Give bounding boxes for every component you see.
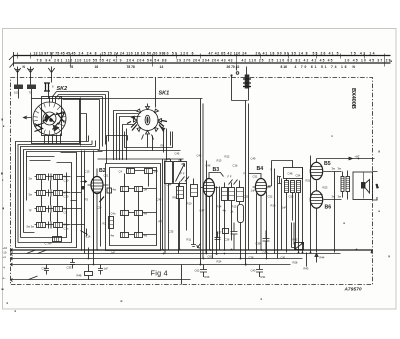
coil row 5 (53, 237, 62, 242)
coil row 4 right (54, 223, 63, 228)
resistor R17 (223, 229, 229, 234)
bus line 2 (11, 253, 341, 255)
block top rail (98, 158, 184, 160)
svg-text:C 7nF: C 7nF (45, 242, 53, 246)
scan speck (3, 126, 4, 128)
svg-text:C52: C52 (268, 195, 273, 199)
SK1 bottom stem (142, 104, 154, 148)
svg-text:B4: B4 (257, 166, 264, 172)
svg-text:C41: C41 (281, 256, 286, 260)
svg-text:R5: R5 (161, 144, 165, 148)
scan speck (7, 303, 9, 304)
svg-text:3w: 3w (332, 195, 335, 199)
coil row 2 left (37, 191, 46, 196)
svg-text:-10: -10 (3, 251, 7, 255)
scan speck (2, 119, 4, 121)
svg-text:25 110 82 82 42 42 45 45: 25 110 82 82 42 42 45 45 (269, 58, 333, 62)
SK1 right contact arm (158, 121, 167, 132)
svg-text:10 45 10 45 37 28: 10 45 10 45 37 28 (345, 58, 391, 62)
svg-text:C20: C20 (97, 206, 102, 210)
row D wires (129, 234, 157, 236)
svg-text:BX400B: BX400B (350, 88, 356, 109)
resistor 70 (27, 85, 36, 90)
output transformer winding R (346, 177, 350, 192)
svg-text:C49: C49 (251, 157, 256, 161)
svg-text:78 94 261: 78 94 261 (37, 58, 63, 62)
speaker leads through frame (373, 172, 378, 201)
svg-text:C13: C13 (85, 170, 90, 174)
svg-text:C62: C62 (195, 269, 200, 273)
wafer SK2 hub (43, 112, 56, 125)
svg-text:C9: C9 (64, 211, 68, 215)
svg-text:R13: R13 (217, 159, 222, 163)
row4 wires (35, 224, 85, 226)
pot arrow (176, 164, 185, 182)
inter-row links (42, 180, 58, 237)
svg-text:C21: C21 (104, 174, 109, 178)
resistor mid bottom (109, 217, 114, 229)
svg-text:C39: C39 (256, 242, 261, 246)
svg-text:75 42 14: 75 42 14 (351, 51, 375, 55)
wafer SK2 plate (42, 97, 62, 136)
wafer SK2 outer disc (33, 102, 66, 135)
ground arrow 2 (197, 244, 201, 249)
antenna terminal A1 (14, 67, 20, 85)
winding 2 (291, 181, 295, 193)
svg-text:16: 16 (95, 65, 99, 69)
block outer rect (106, 164, 161, 251)
svg-text:1nF: 1nF (282, 206, 287, 210)
leads (268, 161, 299, 253)
svg-text:4w: 4w (111, 234, 114, 238)
block inner rect (110, 168, 157, 246)
resistor 100 (14, 85, 23, 90)
svg-text:26 70 42: 26 70 42 (227, 65, 240, 69)
row B wires (129, 188, 157, 190)
svg-text:F F: F F (228, 175, 232, 179)
scattered reference labels (85, 144, 341, 265)
block top inner edges (27, 157, 55, 161)
SK1 left contact arm (127, 122, 137, 131)
switch on bus2 (27, 250, 47, 254)
electrolytic (238, 205, 244, 223)
svg-text:1xF: 1xF (111, 251, 116, 255)
svg-text:B5: B5 (324, 161, 331, 167)
svg-text:204 204 54 54 88: 204 204 54 54 88 (127, 58, 167, 62)
earth terminal (48, 67, 54, 83)
junction dot (230, 74, 232, 76)
svg-text:13 13 97 97 75 45 45 45: 13 13 97 97 75 45 45 45 (34, 51, 76, 55)
cap C34 (215, 232, 221, 240)
feed from bus (237, 67, 247, 75)
svg-text:3w: 3w (338, 195, 341, 199)
cap row 3 (49, 206, 52, 213)
coil row 1 right (54, 175, 63, 180)
svg-text:78 78: 78 78 (127, 65, 135, 69)
preset pot (295, 243, 304, 250)
svg-text:R42: R42 (293, 238, 298, 242)
tube B5 grid (310, 167, 323, 176)
scan speck (261, 299, 263, 300)
wafer SK1 disc (137, 110, 158, 131)
cap C33 (70, 259, 75, 269)
extra junction dots (88, 249, 373, 266)
winding 1 (285, 181, 289, 193)
svg-text:80 50 120 6: 80 50 120 6 (164, 51, 194, 55)
svg-text:R21: R21 (306, 179, 311, 183)
svg-text:3w: 3w (338, 167, 341, 171)
tube B2 envelope (91, 177, 103, 194)
winding 3 (297, 181, 301, 193)
speaker coil bar (361, 182, 365, 189)
contact F (181, 177, 190, 182)
svg-text:110 110 110 55 55 42 42 9: 110 110 110 55 55 42 42 9 (66, 58, 122, 62)
cap cluster 1 (200, 265, 207, 278)
svg-text:3w: 3w (29, 177, 32, 181)
tube B2 cathode stroke (100, 197, 105, 203)
svg-text:+HT: +HT (355, 155, 361, 159)
row A wires (135, 170, 157, 172)
svg-text:C4: C4 (119, 170, 123, 174)
output transformer winding L (341, 177, 344, 192)
coil row 4 left (37, 223, 46, 228)
inter-row links (125, 174, 149, 233)
coil row D left (121, 233, 129, 238)
harness left of SK1 (114, 111, 141, 161)
svg-text:C45: C45 (175, 152, 180, 156)
SK1 lower box (125, 132, 173, 148)
left wire box (81, 186, 85, 190)
svg-text:C38: C38 (249, 256, 254, 260)
coil row A right (145, 169, 153, 174)
svg-text:4 70 61 51 74 16: 4 70 61 51 74 16 (295, 65, 347, 69)
wafer SK2 mounting box (32, 99, 80, 144)
extra verticals (163, 159, 187, 254)
wire drops to bus (82, 151, 94, 265)
svg-text:76: 76 (70, 65, 74, 69)
svg-text:25 25 24 24 110 18 18 50 50 99: 25 25 24 24 110 18 18 50 50 99 (102, 51, 164, 55)
cap C14 (81, 229, 88, 237)
svg-text:7F: 7F (29, 209, 32, 213)
tube B2 grid lines (92, 180, 103, 192)
svg-text:C48: C48 (288, 172, 293, 176)
coil row 2 right (54, 191, 63, 196)
svg-text:4w: 4w (223, 209, 226, 213)
svg-text:R19: R19 (271, 204, 276, 208)
svg-text:C16: C16 (233, 164, 238, 168)
wafer SK2 stems (45, 97, 61, 144)
speaker housing (353, 172, 373, 200)
antenna terminal A2 (27, 67, 33, 85)
svg-text:C42: C42 (197, 154, 202, 158)
svg-text:R44: R44 (320, 256, 325, 260)
svg-text:+4: +4 (3, 255, 7, 259)
coil row B right (135, 187, 143, 192)
wafer SK2 extra arms (41, 109, 59, 130)
svg-text:4w: 4w (113, 188, 116, 192)
scan speck (344, 223, 345, 225)
svg-text:R26: R26 (205, 275, 210, 279)
tube B2 leads (88, 169, 109, 254)
wires (292, 223, 295, 248)
scan speck (2, 289, 4, 291)
svg-text:R28: R28 (293, 261, 298, 265)
bus rule lower (14, 62, 391, 64)
svg-text:C35: C35 (169, 230, 174, 234)
svg-text:a~: a~ (3, 277, 6, 280)
coil row 3 right (54, 207, 63, 212)
wafer SK2 rim contacts (33, 102, 65, 135)
block outer rect (16, 153, 77, 248)
tube B3 grid (204, 183, 214, 192)
cap right (263, 231, 270, 253)
svg-text:14: 14 (160, 65, 164, 69)
wire from frame to SK1 (155, 78, 157, 108)
svg-text:47 42 65 42 110 24: 47 42 65 42 110 24 (209, 51, 247, 55)
svg-text:C40: C40 (251, 269, 256, 273)
speaker centre line (363, 173, 365, 199)
svg-text:Fig 4: Fig 4 (151, 269, 168, 278)
cap row 4 (49, 222, 52, 229)
frame blob (376, 184, 379, 189)
pot box right (174, 162, 187, 184)
cap C31 (98, 265, 103, 275)
left arrows (11, 249, 13, 282)
svg-text:5w 3w: 5w 3w (27, 225, 35, 229)
svg-text:B2: B2 (99, 168, 106, 174)
ground arrow (191, 241, 196, 247)
bus line 1 (11, 249, 373, 251)
scan speck (379, 151, 380, 153)
IFT can 1 (222, 188, 228, 201)
coil row A left (127, 169, 135, 174)
svg-text:C40: C40 (263, 251, 268, 255)
bus line 4 (11, 264, 291, 266)
scan speck (389, 256, 390, 258)
long wire y150 (98, 150, 181, 152)
svg-text:+10: +10 (3, 246, 8, 250)
svg-text:C30: C30 (42, 267, 47, 271)
resistor R6 (177, 187, 184, 199)
svg-text:R15: R15 (232, 205, 237, 209)
svg-text:F F: F F (181, 172, 185, 176)
scan speck (2, 180, 3, 181)
anode wires (257, 192, 267, 259)
svg-text:R10: R10 (187, 202, 192, 206)
trimmer stack (245, 75, 250, 89)
Fig4 cell divider (181, 265, 183, 285)
tube B6 envelope (310, 191, 322, 208)
leads (225, 181, 240, 250)
svg-text:C10: C10 (64, 179, 69, 183)
svg-text:R7: R7 (159, 220, 163, 224)
wires from inputs down (19, 89, 49, 99)
bus rule upper (14, 55, 391, 57)
row C wires (129, 212, 157, 214)
wafer SK1 teeth (134, 107, 162, 135)
bus line 3 (11, 258, 303, 260)
svg-text:1nF: 1nF (251, 189, 256, 193)
SK2 left arrow to frame (24, 116, 32, 119)
scan noise specks (1, 61, 392, 312)
tube B4 grid (256, 183, 266, 192)
svg-text:8 16: 8 16 (281, 65, 288, 69)
upper mid rect (107, 136, 128, 164)
svg-text:3w: 3w (29, 193, 32, 197)
svg-text:SK1: SK1 (159, 91, 170, 97)
svg-text:R14: R14 (217, 205, 222, 209)
cap row 1 (49, 174, 52, 181)
tube B3 leads (201, 173, 224, 259)
IFT can 3 (237, 188, 244, 202)
wire (62, 98, 203, 100)
svg-text:C46: C46 (206, 164, 211, 168)
coil row B left (121, 187, 129, 192)
row3 wires (35, 208, 82, 210)
scan speck (121, 301, 123, 302)
coil 6 (44, 83, 50, 91)
svg-text:R31: R31 (261, 275, 266, 279)
tube B3 envelope (203, 179, 214, 197)
bus terminal ticks (18, 53, 385, 67)
svg-text:C43: C43 (157, 198, 162, 202)
extra verticals (275, 169, 307, 267)
svg-text:R11: R11 (187, 238, 192, 242)
svg-text:26 41 18 90 90 35 14 8: 26 41 18 90 90 35 14 8 (256, 51, 308, 55)
row2 wires (35, 192, 82, 194)
cap cluster 2 (256, 265, 263, 278)
cap row 2 (49, 190, 52, 197)
pot leads (169, 159, 181, 254)
mains switch (29, 276, 38, 280)
svg-text:29 270 204 204 204 43 43: 29 270 204 204 204 43 43 (177, 58, 233, 62)
block inner rect (18, 163, 72, 243)
svg-text:R9: R9 (173, 196, 177, 200)
svg-text:R12: R12 (225, 155, 230, 159)
coil row D right (135, 233, 143, 238)
small comps left (278, 177, 281, 184)
scan speck (3, 208, 5, 210)
wire (217, 187, 220, 254)
coupling caps to transformer (330, 172, 342, 253)
B5-B6 link (317, 159, 330, 253)
svg-text:C10: C10 (64, 195, 69, 199)
svg-text:C47: C47 (200, 209, 205, 213)
coil row C right (135, 211, 143, 216)
harness right of SK1 (153, 129, 167, 161)
row1 wires (35, 176, 85, 178)
scan speck (15, 311, 17, 312)
long wires down (246, 101, 249, 266)
svg-text:C61: C61 (208, 255, 213, 259)
bus left end bracket (9, 52, 14, 68)
coil row C left (121, 211, 129, 216)
pot box left (165, 162, 173, 184)
svg-text:C53: C53 (289, 195, 294, 199)
svg-text:C54: C54 (296, 174, 301, 178)
wires right (303, 156, 311, 253)
svg-text:R3: R3 (85, 198, 89, 202)
terminal circle (236, 72, 239, 75)
svg-text:42 110 25: 42 110 25 (242, 58, 264, 62)
cap C30 (44, 265, 49, 275)
svg-text:R24: R24 (217, 260, 222, 264)
harness bundle from switch (16, 136, 103, 248)
wire feeds left block (81, 98, 87, 146)
resistor R7 (191, 185, 198, 197)
+HT line (317, 157, 375, 160)
svg-text:C50: C50 (244, 195, 249, 199)
scan speck (332, 136, 333, 137)
svg-text:B6: B6 (325, 205, 332, 211)
resistor mains (85, 272, 93, 276)
wafer SK2 wiper right (56, 113, 65, 125)
svg-text:R2: R2 (103, 222, 107, 226)
bus wire y101 (201, 99, 204, 265)
coil row 1 left (37, 175, 46, 180)
cap near middle (231, 223, 238, 251)
long mid verticals (206, 161, 208, 254)
coil row 3 left (37, 207, 46, 212)
cap box top (284, 168, 303, 179)
svg-text:C44: C44 (167, 183, 172, 187)
transformer leads (343, 171, 348, 200)
harness bends down right (100, 92, 109, 150)
svg-text:C1n: C1n (64, 227, 69, 231)
svg-text:C36: C36 (225, 238, 230, 242)
svg-text:C51: C51 (253, 175, 258, 179)
tick arrows (81, 180, 87, 182)
svg-text:1xF: 1xF (104, 267, 109, 271)
wafer SK1 rotor (145, 115, 150, 125)
frame junction (371, 250, 373, 253)
tube B5 envelope (310, 162, 322, 179)
svg-text:R8: R8 (179, 159, 183, 163)
IFT can 2 (229, 188, 235, 201)
speaker cone (365, 180, 370, 194)
tube B4 leads (249, 174, 271, 250)
svg-text:A79570: A79570 (344, 287, 363, 292)
svg-text:3w: 3w (332, 167, 335, 171)
svg-text:C14: C14 (86, 235, 91, 239)
scan speck (379, 211, 380, 213)
grid stopper box (107, 188, 112, 193)
wire harness top (57, 92, 109, 100)
svg-text:24 24 8: 24 24 8 (79, 51, 97, 55)
svg-text:R48: R48 (77, 274, 82, 278)
tube B4 envelope (255, 179, 266, 196)
svg-text:C4n: C4n (111, 212, 116, 216)
arrow resistor (315, 254, 318, 263)
svg-text:C33: C33 (67, 266, 72, 270)
wafer SK2 wiper left (35, 123, 45, 132)
bus line 5 (11, 279, 191, 281)
junction dots (81, 249, 336, 265)
wires (180, 179, 194, 250)
harness bends into switch (53, 92, 61, 100)
scan speck (1, 173, 3, 175)
contacts (229, 180, 238, 185)
tube B6 grid (310, 195, 323, 204)
scan speck (391, 61, 393, 63)
svg-text:R23: R23 (323, 186, 328, 190)
wire loop (232, 76, 249, 101)
svg-text:R43: R43 (304, 267, 309, 271)
